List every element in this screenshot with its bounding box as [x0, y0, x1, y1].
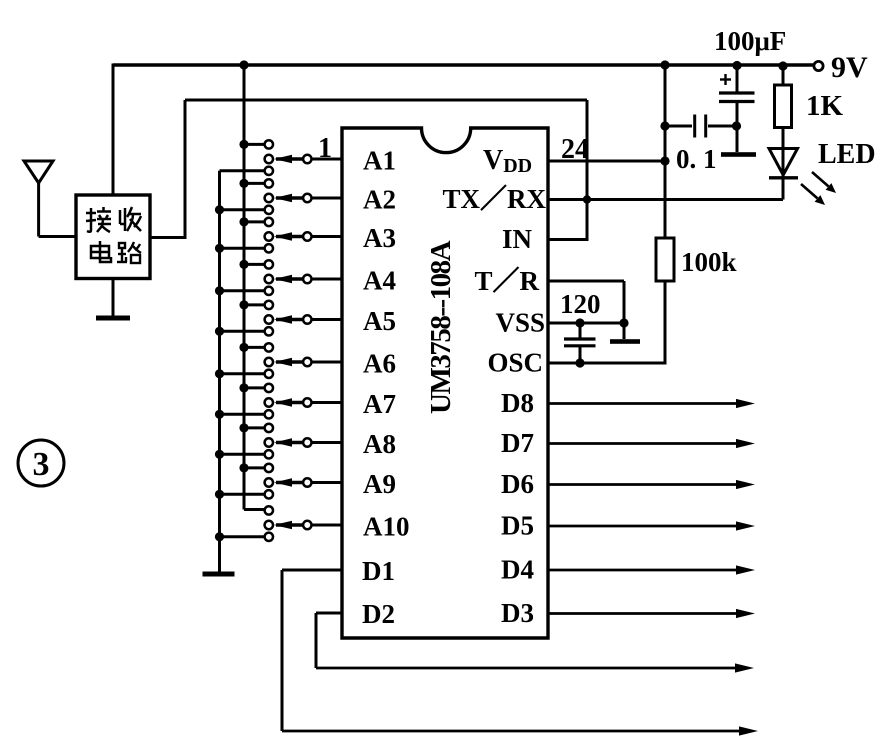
svg-text:0. 1: 0. 1 — [676, 144, 717, 174]
switch S9 for pin A9 — [215, 463, 312, 499]
node: 0.1uF tap — [660, 121, 669, 130]
wire: output D3 — [548, 612, 738, 615]
label: receiver text line2 DIAN LU — [91, 241, 111, 262]
wire: switch S10 to pin A10 — [312, 524, 343, 527]
switch S1 for pin A1 — [220, 140, 312, 175]
resistor R1 1K — [775, 66, 792, 149]
switch S3 for pin A3 — [215, 217, 312, 253]
label: receiver text line1 JIE SHOU — [86, 207, 111, 232]
svg-text:D5: D5 — [501, 511, 534, 541]
svg-text:D8: D8 — [501, 388, 534, 418]
svg-text:A10: A10 — [363, 512, 410, 542]
svg-text:100k: 100k — [681, 247, 737, 277]
wire: switch S6 to pin A6 — [312, 361, 343, 364]
wire: VDD bus for address switches — [243, 65, 246, 510]
ground: 100uF negative — [721, 152, 756, 157]
svg-text:120: 120 — [560, 289, 601, 319]
switch S2 for pin A2 — [215, 179, 312, 215]
capacitor C3 120 — [564, 323, 596, 363]
svg-text:D1: D1 — [362, 556, 395, 586]
wire: 2nd rail drop to receiver box — [184, 100, 187, 238]
ground: receiver — [96, 316, 130, 321]
node: caps join — [732, 121, 741, 130]
svg-text:A8: A8 — [363, 429, 396, 459]
svg-text:VSS: VSS — [495, 308, 545, 338]
svg-text:D4: D4 — [501, 555, 534, 585]
svg-text:A3: A3 — [363, 223, 396, 253]
wire: IN pin stub — [548, 238, 589, 241]
wire: switch S5 to pin A5 — [312, 318, 343, 321]
wire: output D5 — [548, 525, 738, 528]
LED arrows — [801, 172, 836, 205]
node: TX/RX crossing dot — [583, 195, 591, 203]
capacitor C1 100uF electrolytic — [719, 65, 755, 152]
capacitor C2 0.1 — [665, 115, 738, 138]
svg-text:A2: A2 — [363, 185, 396, 215]
node: T/R joins VSS — [619, 318, 628, 327]
wire: T/R pin to ground — [548, 280, 624, 283]
svg-text:A6: A6 — [363, 349, 396, 379]
node: rail junction at 100k/0.1 branch — [660, 60, 669, 69]
svg-text:T／R: T／R — [474, 266, 539, 296]
svg-text:UM3758--108A: UM3758--108A — [425, 240, 457, 414]
svg-text:9V: 9V — [831, 51, 868, 84]
resistor R2 100k — [656, 238, 674, 281]
wire: rail down to receiver box top — [112, 64, 115, 197]
node: rail junction at switch bus — [239, 60, 248, 69]
ground: T/R + VSS — [610, 339, 640, 344]
svg-text:D7: D7 — [501, 428, 534, 458]
svg-text:A1: A1 — [363, 146, 396, 176]
svg-text:1K: 1K — [806, 90, 844, 122]
svg-text:A4: A4 — [363, 266, 396, 296]
svg-text:A7: A7 — [363, 389, 396, 419]
svg-text:3: 3 — [33, 446, 50, 483]
node: VSS to 120pF — [575, 318, 584, 327]
switch S10 for pin A10 — [215, 506, 312, 541]
wire: switch S3 to pin A3 — [312, 235, 343, 238]
svg-text:LED: LED — [818, 139, 876, 170]
switch S6 for pin A6 — [215, 343, 312, 379]
svg-text:1: 1 — [318, 133, 332, 164]
wire: output D4 — [548, 569, 738, 572]
wire: 9V vertical branch down to 100k — [664, 65, 667, 238]
wire: output D1 — [282, 569, 342, 572]
IC U1 UM3758-108A body — [342, 128, 548, 638]
node: rail junction at 1K — [778, 61, 787, 70]
wire: OSC pin to 100k — [548, 362, 667, 365]
switch S7 for pin A7 — [215, 383, 312, 419]
switch S4 for pin A4 — [215, 260, 312, 296]
figure number 3 (circled) — [18, 440, 64, 486]
node: VDD joins 9V branch — [660, 156, 669, 165]
wire: switch S1 to pin A1 — [312, 158, 343, 161]
wire: 100k to OSC — [664, 281, 667, 363]
wire: +9V top rail — [113, 63, 818, 67]
wire: output D2 — [316, 612, 342, 615]
antenna — [24, 161, 77, 237]
svg-text:A9: A9 — [363, 469, 396, 499]
svg-text:D2: D2 — [362, 599, 395, 629]
wire: receiver box to ground — [112, 279, 115, 317]
wire: IN drop from 2nd rail — [586, 100, 589, 240]
LED D led — [769, 148, 798, 200]
wire: TX/RX to LED — [548, 198, 783, 201]
wire: switch S2 to pin A2 — [312, 197, 343, 200]
wire: receiver output rail (2nd rail) — [185, 99, 587, 102]
switch S8 for pin A8 — [215, 423, 312, 459]
wire: VDD (pin24) to 9V vertical — [548, 160, 665, 163]
svg-text:TX／RX: TX／RX — [442, 184, 546, 214]
wire: VSS pin — [548, 322, 624, 325]
wire: output D8 — [548, 402, 738, 405]
wire: switch S8 to pin A8 — [312, 441, 343, 444]
node: rail junction at 100uF — [732, 61, 741, 70]
svg-text:D3: D3 — [501, 598, 534, 628]
switch S5 for pin A5 — [215, 300, 312, 336]
node: 120pF to OSC — [575, 358, 584, 367]
svg-text:D6: D6 — [501, 469, 534, 499]
wire: switch S4 to pin A4 — [312, 278, 343, 281]
svg-text:OSC: OSC — [487, 348, 543, 378]
wire: ground bus for address switches — [218, 171, 221, 572]
wire: switch S9 to pin A9 — [312, 481, 343, 484]
ground: switch bus — [203, 572, 235, 577]
svg-text:100μF: 100μF — [714, 26, 786, 56]
svg-text:A5: A5 — [363, 306, 396, 336]
terminal: 9V supply — [814, 61, 823, 70]
receiver circuit block (jieshou dianlu) — [76, 195, 150, 279]
wire: output D7 — [548, 442, 738, 445]
wire: output D6 — [548, 483, 738, 486]
wire: switch S7 to pin A7 — [312, 401, 343, 404]
svg-text:IN: IN — [502, 224, 533, 254]
